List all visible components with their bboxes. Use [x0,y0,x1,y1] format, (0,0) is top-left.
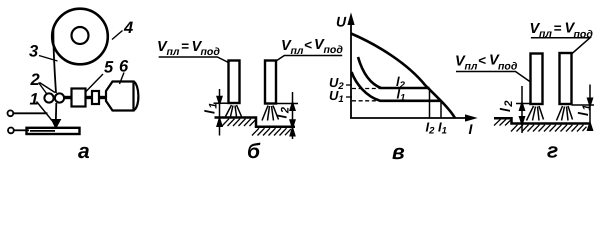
svg-text:I: I [469,121,474,137]
dashed level U1 [352,100,385,102]
electrode wire down to arc [55,103,58,122]
leader for label 4 [112,31,123,40]
ground b: left high surface [215,118,296,127]
svg-text:U: U [336,14,347,30]
svg-text:<: < [304,38,312,53]
shaft coupling to motor [99,96,106,99]
gearbox item 5 [72,89,86,107]
dimension l2 arrowheads [290,104,294,111]
spool hub inner circle [72,27,89,44]
spool (wire reel) outer circle, item 4 [52,9,108,65]
svg-text:в: в [392,141,405,164]
ground g: raised left block, step, main surface [494,118,591,123]
tick U2 on axis [346,84,352,86]
electrode g-right [560,53,572,104]
wire from bottom terminal to workpiece [14,129,29,131]
feed roller right [55,93,64,102]
dimension l1 arrowheads [588,99,592,106]
source characteristic curve [351,34,455,119]
svg-text:3: 3 [29,43,38,61]
svg-text:I2: I2 [426,120,436,137]
dimension l2 arrowheads [520,104,524,111]
coupling [92,91,99,104]
underline of formula and leader to right electrode [276,56,342,62]
svg-text:I1: I1 [438,120,447,137]
weld pool mark inside plate [30,130,55,132]
svg-text:2: 2 [30,71,40,89]
svg-text:l1: l1 [202,101,220,114]
arc characteristic curve l1 (lower) [352,72,442,101]
formula Vpl < Vpod (figure b right) [281,37,343,57]
terminal circle bottom [8,127,14,133]
svg-text:под: под [574,29,594,41]
shaft roller to gearbox [64,96,72,99]
svg-text:б: б [247,140,261,163]
arrowhead at electrode tip [52,120,61,129]
dimension l2 vertical [521,86,523,133]
svg-text:под: под [201,46,221,58]
dimension l1 arrowheads [217,97,221,104]
dimension l1 vertical line [219,89,221,136]
svg-text:4: 4 [123,19,133,37]
electrode b-left [229,61,240,104]
dimension l2 vertical line [292,92,294,139]
leader for label 3 [39,56,58,62]
svg-text:г: г [547,140,558,163]
graph v: I axis [350,117,470,119]
dimension l1 (g-right): extension tick [572,104,595,106]
arc rays under b-left electrode [226,105,242,117]
svg-text:=: = [181,39,189,54]
arc characteristic curve l2 (upper) [358,57,430,88]
svg-text:под: под [324,44,344,56]
arc rays under g-right electrode [557,106,573,121]
tick U1 on axis [346,96,352,98]
I axis arrowhead [466,116,474,121]
shaft gearbox to coupling [86,96,93,99]
svg-text:пл: пл [167,46,180,58]
feed roller left [44,93,53,102]
underline of formula and leader to left electrode [159,57,229,63]
underline of formula and leader to g-right electrode [531,38,590,54]
arc rays under b-right electrode [262,106,279,121]
wire from spool down to rollers [53,26,56,93]
dimension l1: extension tick at electrode tip [214,102,229,104]
dimension l1 vertical [589,85,591,131]
hatching b-right block [252,128,291,135]
svg-text:<: < [478,53,486,68]
leader for label 5 [86,74,104,92]
wire from top terminal to electrode [14,112,48,114]
formula Vpl = Vpod (figure g right) [530,21,594,41]
formula Vpl = Vpod (figure b left) [157,39,220,59]
leader for label 6 [120,73,125,85]
electrode g-left [531,54,543,105]
terminal circle top [7,110,13,116]
arc rays under g-left electrode [527,106,544,121]
leader for label 1 [37,102,53,121]
svg-text:пл: пл [465,61,478,73]
hatching g raised left block [494,119,512,125]
svg-text:=: = [554,21,562,36]
motor item 6 body [106,82,134,111]
workpiece plate [27,128,80,134]
hatching g main surface [511,125,587,132]
underline of formula and leader to g-left electrode [456,72,531,83]
vertical line at I2 [429,88,431,118]
svg-text:l2: l2 [497,99,515,112]
electrode b-right [265,61,276,104]
vertical line at I1 [440,101,442,118]
dashed level U2 [352,88,381,90]
leaders for label 2 to both rollers [39,83,47,94]
svg-text:5: 5 [104,59,114,77]
graph v: U axis [350,19,352,118]
svg-text:а: а [78,140,90,163]
U axis arrowhead [349,16,354,24]
hatching b-left block [222,119,257,126]
motor end cap [134,82,139,111]
dimension l2 (g-left): extension tick [516,103,531,105]
svg-text:1: 1 [30,91,39,109]
svg-text:под: под [498,61,518,73]
formula Vpl < Vpod (figure g left) [455,53,518,73]
dimension l2: extension tick at electrode tip [276,103,298,105]
